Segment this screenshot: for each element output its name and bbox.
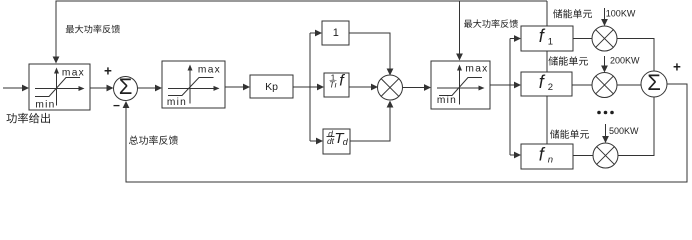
- svg-text:f: f: [539, 144, 546, 164]
- proportional block "1": [322, 21, 349, 45]
- svg-text:Tı: Tı: [329, 80, 337, 90]
- svg-text:min: min: [437, 95, 457, 106]
- wire: block2 to Kp: [225, 84, 250, 91]
- saturation limiter block 2: [162, 61, 225, 108]
- label: 最大功率反馈 (right): [464, 19, 518, 27]
- wire: f-branch vertical: [509, 39, 511, 156]
- wire: block1 to summing junction: [90, 85, 114, 92]
- svg-text:d: d: [343, 137, 349, 147]
- wire: derivative block to mixer: [350, 101, 393, 142]
- storage unit block f2: [521, 72, 572, 96]
- wire: block3 output to f-branch junction and into f2: [490, 82, 521, 89]
- wire: multiplier 2 to Σ2 left: [617, 84, 641, 86]
- svg-text:max: max: [198, 64, 221, 75]
- label: 总功率反馈 (total power feedback): [129, 135, 178, 144]
- svg-text:2: 2: [548, 82, 553, 93]
- wire: Σ1 to block2: [138, 85, 163, 92]
- wire: 200KW arrow into multiplier 2: [601, 56, 608, 73]
- wire: fn to multiplier 3: [573, 155, 593, 157]
- wire: f2 to multiplier 2: [572, 84, 592, 86]
- wire: system input: [3, 85, 29, 92]
- svg-text:f: f: [339, 73, 345, 90]
- svg-text:200KW: 200KW: [610, 55, 640, 65]
- label: 储能单元 (row n): [550, 130, 589, 139]
- wire: chain f2 bottom to fn top: [546, 96, 548, 144]
- multiplier circle 2: [592, 73, 617, 98]
- wire: integral block to mixer: [349, 84, 378, 91]
- integral block 1/Ti·f: [324, 72, 349, 97]
- svg-text:f: f: [539, 26, 546, 46]
- wire: 500KW arrow into multiplier 3: [602, 124, 609, 143]
- wire: max power feedback top line to block1: [53, 1, 547, 64]
- summing junction Σ2: [641, 70, 667, 97]
- svg-text:+: +: [104, 64, 112, 79]
- svg-text:500KW: 500KW: [609, 126, 639, 136]
- ellipsis dots between row2 and row n: [597, 111, 614, 115]
- wire: chain f1 bottom to f2 top: [546, 51, 548, 72]
- svg-text:Σ: Σ: [647, 70, 661, 95]
- svg-text:100KW: 100KW: [606, 9, 636, 19]
- svg-text:Kp: Kp: [265, 81, 278, 93]
- storage unit block fn: [521, 144, 573, 169]
- wire: block "1" to mixer: [349, 33, 393, 76]
- gain block Kp: [250, 75, 293, 98]
- wire: multiplier 3 to Σ2 bottom: [618, 97, 654, 156]
- svg-text:1: 1: [333, 27, 339, 39]
- wire: branch to proportional block: [310, 30, 322, 37]
- saturation limiter block 1: [29, 64, 90, 111]
- label: 功率给出 (power given): [6, 113, 50, 123]
- svg-text:min: min: [167, 97, 187, 108]
- multiplier circle 1: [592, 26, 617, 51]
- wire: PID branch vertical: [309, 33, 311, 141]
- svg-text:max: max: [465, 63, 488, 74]
- wire: mixer to saturation block 3: [403, 84, 432, 91]
- wire: branch to fn: [510, 152, 521, 159]
- storage unit block f1: [521, 26, 573, 51]
- wire: chain f1 top to max-power feedback line: [546, 1, 548, 26]
- wire: branch to f1: [510, 35, 521, 42]
- svg-text:+: +: [673, 60, 681, 75]
- wire: max power feedback drop to block3: [456, 1, 463, 61]
- svg-text:min: min: [35, 100, 55, 111]
- svg-text:Σ: Σ: [119, 74, 133, 99]
- svg-text:n: n: [548, 155, 553, 166]
- summing junction Σ1: [114, 74, 138, 101]
- svg-text:f: f: [539, 72, 546, 92]
- svg-text:max: max: [62, 68, 85, 79]
- saturation limiter block 3: [431, 61, 490, 109]
- label: 储能单元 (row 1): [553, 9, 592, 18]
- wire: branch to derivative block: [310, 138, 323, 145]
- svg-text:−: −: [113, 99, 120, 113]
- mixer circle (PID combine): [378, 75, 403, 100]
- svg-text:1: 1: [548, 36, 553, 47]
- wire: f1 to multiplier 1: [573, 38, 592, 40]
- derivative block d/dt·Td: [323, 128, 350, 154]
- wire: total power feedback loop Σ2 output back to Σ1: [123, 84, 687, 182]
- label: 最大功率反馈 (left): [66, 25, 120, 34]
- label: 储能单元 (row 2): [549, 56, 588, 65]
- wire: multiplier 1 to Σ2 top: [617, 39, 654, 72]
- multiplier circle 3: [593, 143, 618, 168]
- wire: 100KW arrow into multiplier 1: [601, 8, 608, 26]
- wire: Kp output to branch junction to integral block: [293, 84, 324, 91]
